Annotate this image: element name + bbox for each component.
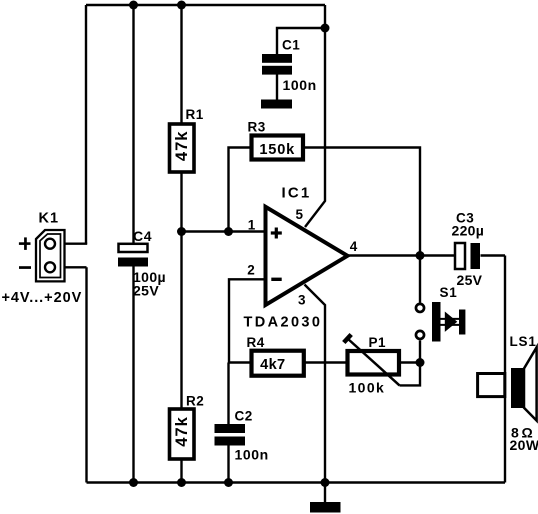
op-amp IC1 triangle [266, 207, 348, 305]
wire left ground rail [85, 267, 87, 482]
loudspeaker LS1 [478, 347, 537, 420]
wire R4 to P1 [304, 361, 348, 363]
wire pin1 input row [182, 230, 266, 232]
svg-text:P1: P1 [369, 335, 387, 350]
wire R3 left riser [229, 148, 252, 232]
wire right rail [504, 256, 506, 483]
connector K1 body [36, 230, 65, 281]
svg-text:K1: K1 [39, 211, 60, 227]
switch S1 [416, 302, 465, 342]
wire top +V rail [86, 4, 325, 6]
svg-text:25V: 25V [133, 282, 159, 298]
wire C2 bottom lead [227, 446, 229, 483]
capacitor C2 [215, 424, 246, 446]
svg-text:4: 4 [350, 239, 358, 254]
resistor R1 [170, 124, 195, 172]
svg-text:100n: 100n [283, 77, 317, 93]
resistor R4 [252, 351, 304, 376]
node dot ground rail / R2 [177, 478, 186, 487]
capacitor C1 [262, 54, 292, 75]
plus mark noninverting input [271, 228, 282, 239]
svg-text:R2: R2 [186, 394, 204, 409]
wire feedback row left [229, 361, 252, 363]
wire C1 branch [277, 28, 325, 55]
node dot top rail / R1 [177, 1, 186, 10]
svg-text:47k: 47k [173, 131, 191, 162]
svg-text:100n: 100n [235, 446, 269, 462]
resistor R3 [252, 136, 304, 160]
svg-text:LS1: LS1 [510, 334, 537, 349]
svg-text:3: 3 [298, 293, 306, 308]
wire C4 branch top [132, 5, 134, 244]
ground main [310, 502, 341, 513]
wire R2 top lead [180, 232, 182, 410]
capacitor C3 polarized [455, 243, 480, 269]
node dot ground rail / C4 [129, 478, 138, 487]
wire P1 wiper tail [400, 363, 421, 386]
svg-text:100k: 100k [349, 380, 386, 396]
svg-text:R3: R3 [248, 119, 266, 134]
node dot ground rail / C2 [224, 478, 233, 487]
svg-text:220µ: 220µ [452, 223, 485, 239]
wire R1 bottom lead [180, 172, 182, 232]
node dot C1 / pin5 line [321, 24, 330, 33]
svg-text:C4: C4 [133, 228, 152, 244]
resistor R2 [170, 409, 195, 459]
capacitor C4 [118, 244, 148, 267]
wire output row [347, 254, 455, 256]
wire R2 bottom lead [180, 459, 182, 483]
wire C3 right to rail [481, 254, 506, 256]
svg-text:150k: 150k [259, 142, 295, 158]
wire R3 right to output [303, 148, 420, 256]
svg-text:5: 5 [296, 207, 304, 222]
wire pin5 supply drop [305, 5, 325, 227]
svg-text:C2: C2 [235, 408, 253, 423]
node dot P1 wiper / S1 [416, 358, 425, 367]
svg-text:20W: 20W [510, 437, 538, 453]
node dot pin1 / R3 [224, 227, 233, 236]
potentiometer P1 [344, 335, 400, 386]
svg-text:IC1: IC1 [282, 184, 312, 201]
wire K1 plus lead [55, 242, 87, 244]
svg-text:S1: S1 [440, 285, 458, 300]
wire bottom ground rail [87, 481, 506, 483]
wire pin3 drop [305, 285, 326, 483]
svg-text:TDA2030: TDA2030 [244, 315, 323, 331]
svg-text:25V: 25V [457, 272, 483, 288]
svg-text:+4V...+20V: +4V...+20V [2, 290, 83, 306]
wire C4 branch bottom [132, 266, 134, 482]
wire main ground stem [324, 483, 326, 503]
svg-text:47k: 47k [173, 416, 191, 447]
K1 minus mark [19, 266, 31, 269]
svg-text:R1: R1 [186, 107, 204, 122]
svg-text:C1: C1 [282, 37, 300, 52]
minus mark inverting input [271, 278, 281, 281]
svg-text:2: 2 [247, 263, 255, 278]
node dot ground rail / pin3 [321, 478, 330, 487]
svg-text:R4: R4 [247, 335, 265, 350]
wire R1 top lead [180, 5, 182, 125]
svg-text:4k7: 4k7 [260, 357, 285, 373]
wire S1 bottom lead [419, 340, 421, 362]
wire K1 minus lead [55, 266, 87, 268]
node dot output / C3 / S1 [416, 251, 425, 260]
svg-text:1: 1 [248, 217, 256, 232]
wire C1 to ground bar [276, 75, 278, 101]
K1 plus mark [19, 237, 31, 250]
node dot top rail / C4 [129, 1, 138, 10]
wire left rail plus [85, 5, 87, 244]
node dot R1-R2 divider [177, 227, 186, 236]
wire pin2 row [229, 279, 265, 362]
wire S1 top riser [419, 256, 421, 303]
ground bar C1 [261, 100, 292, 109]
wire C2 top lead [227, 363, 229, 425]
wire P1 right lead [399, 361, 420, 363]
